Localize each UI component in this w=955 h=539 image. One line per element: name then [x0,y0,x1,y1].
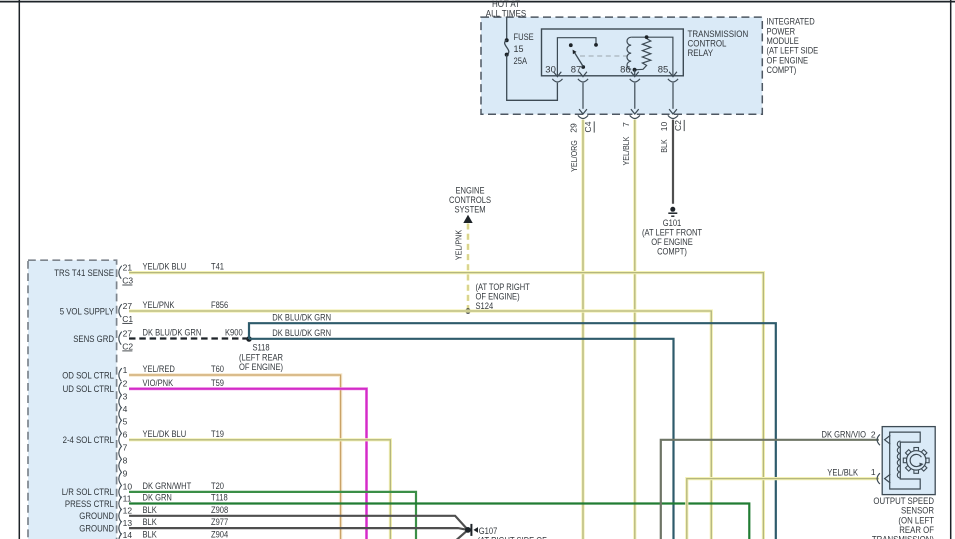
svg-text:10: 10 [123,482,133,492]
TCM pin 8 [119,456,128,472]
svg-text:T59: T59 [211,378,224,388]
svg-text:CONTROLS: CONTROLS [449,195,491,205]
svg-text:5: 5 [123,417,128,427]
svg-text:DK BLU/DK GRN: DK BLU/DK GRN [272,328,331,338]
wire YEL/ORG circuit 29 C4 from relay pin 87 [568,120,594,539]
relay pin 87 stub wire and connector [578,72,588,119]
wire YEL/BLK circuit 7 from relay pin 86 [621,120,635,539]
relay box (transmission control relay) [542,29,684,76]
svg-text:ENGINE: ENGINE [456,186,485,196]
svg-text:OF ENGINE): OF ENGINE) [239,362,283,372]
svg-text:INTEGRATED: INTEGRATED [767,17,816,27]
svg-text:TRS T41 SENSE: TRS T41 SENSE [54,268,114,278]
TCM pin 6 2-4 SOL CTRL [63,430,128,446]
output speed sensor box [882,427,935,495]
TCM pin 5 [119,417,128,433]
svg-text:3: 3 [123,391,128,401]
svg-text:DK BLU/DK GRN: DK BLU/DK GRN [143,328,202,338]
svg-text:SENS GRD: SENS GRD [73,334,114,344]
svg-text:YEL/PNK: YEL/PNK [143,300,175,310]
svg-text:SENSOR: SENSOR [901,506,934,516]
TCM pin 11 PRESS CTRL [65,493,132,509]
svg-text:(LEFT REAR: (LEFT REAR [239,352,283,362]
svg-text:10: 10 [659,122,669,132]
TCM pin 10 L/R SOL CTRL [62,482,133,498]
svg-text:9: 9 [123,469,128,479]
svg-text:G107: G107 [479,526,498,536]
relay coil 86/85 [627,35,673,75]
wire DK BLU/DK GRN upper branch [249,312,776,539]
svg-text:PRESS CTRL: PRESS CTRL [65,499,114,509]
TCM pin 1 OD SOL CTRL [62,365,127,381]
TCM pin 21 C3 TRS T41 SENSE [54,262,133,285]
svg-text:YEL/DK BLU: YEL/DK BLU [143,262,187,272]
integrated power module box [481,17,762,114]
wire VIO/PNK T59 [129,378,367,539]
svg-text:Z977: Z977 [211,517,228,527]
svg-text:YEL/BLK: YEL/BLK [827,468,858,478]
svg-text:12: 12 [123,506,133,516]
TCM pin 14 [119,530,132,539]
svg-text:7: 7 [621,122,631,127]
svg-text:COMPT): COMPT) [657,246,687,256]
splice S124 [465,282,530,314]
wire BLK Z977 [129,517,468,530]
svg-text:2-4 SOL CTRL: 2-4 SOL CTRL [63,435,114,445]
svg-text:(AT RIGHT SIDE OF: (AT RIGHT SIDE OF [478,536,548,539]
svg-text:5 VOL SUPPLY: 5 VOL SUPPLY [60,306,114,316]
svg-text:4: 4 [123,404,128,414]
fuse 15 25A [505,32,534,66]
svg-text:T60: T60 [211,364,224,374]
svg-text:OF ENGINE): OF ENGINE) [476,291,520,301]
TCM pin 12 GROUND [79,506,132,522]
svg-text:T41: T41 [211,262,224,272]
wire YEL/PNK F856 [129,300,711,539]
TCM pin 7 [119,443,128,459]
wire BLK circuit 10 C2 from relay pin 85 [659,120,684,204]
svg-text:T118: T118 [211,493,228,503]
wire YEL/DK BLU T41 [129,262,763,539]
svg-text:YEL/PNK: YEL/PNK [454,230,464,260]
svg-text:DK BLU/DK GRN: DK BLU/DK GRN [272,312,331,322]
svg-text:27: 27 [123,328,133,338]
svg-text:2: 2 [871,429,876,439]
wire DK GRN/VIO to sensor pin 2 [661,429,879,539]
svg-text:87: 87 [571,64,582,75]
svg-text:REAR OF: REAR OF [899,525,934,535]
TCM pin 4 [119,404,128,420]
label OUTPUT SPEED SENSOR [872,496,934,539]
wire YEL/RED T60 [129,364,341,539]
svg-text:GROUND: GROUND [79,511,114,521]
sensor pin 1 [871,467,890,484]
svg-text:OF ENGINE: OF ENGINE [651,237,693,247]
svg-text:YEL/BLK: YEL/BLK [621,136,631,165]
wire BLK Z908 [129,505,468,530]
TCM pin 9 [119,469,128,485]
svg-text:SYSTEM: SYSTEM [454,205,485,215]
wire DK GRN T118 [129,493,749,539]
svg-text:15: 15 [514,44,524,54]
svg-text:29: 29 [568,123,578,133]
wire BLK Z904 [143,529,468,539]
svg-text:T20: T20 [211,481,224,491]
svg-text:1: 1 [871,467,876,477]
svg-text:VIO/PNK: VIO/PNK [143,378,174,388]
svg-text:FUSE: FUSE [514,32,534,42]
svg-text:(AT LEFT FRONT: (AT LEFT FRONT [642,227,703,237]
svg-text:13: 13 [123,518,133,528]
TCM pin 27 C1 5 VOL SUPPLY [60,301,134,324]
svg-text:C2: C2 [122,341,133,351]
svg-text:C1: C1 [122,314,133,324]
TCM pin 13 GROUND [79,518,132,534]
svg-text:G101: G101 [663,218,682,228]
wire DK BLU/DK GRN lower branch [249,328,674,539]
transmission control module connector box [28,260,117,539]
wire YEL/DK BLU T19 [129,429,390,539]
TCM pin 3 [119,391,128,407]
svg-text:OF ENGINE: OF ENGINE [767,55,809,65]
svg-text:25A: 25A [514,56,528,66]
relay switch contacts 30/87 [557,38,629,76]
svg-text:6: 6 [123,430,128,440]
label INTEGRATED POWER MODULE [767,17,819,76]
svg-text:DK GRN/WHT: DK GRN/WHT [143,481,192,491]
svg-text:GROUND: GROUND [79,523,114,533]
svg-text:8: 8 [123,456,128,466]
wire DK GRN/WHT T20 [129,481,416,539]
sensor pin 2 [871,429,890,445]
ground G101 [642,207,703,256]
svg-text:27: 27 [123,301,133,311]
svg-text:YEL/ORG: YEL/ORG [569,140,579,172]
svg-text:OD SOL CTRL: OD SOL CTRL [62,370,114,380]
wire fuse to relay pin 30 [507,55,563,101]
svg-text:C4: C4 [583,121,593,132]
relay pin 86 stub wire and connector [630,72,640,119]
svg-text:7: 7 [123,443,128,453]
svg-text:OUTPUT SPEED: OUTPUT SPEED [873,496,934,506]
TCM pin 2 UD SOL CTRL [63,379,128,395]
svg-text:2: 2 [123,379,128,389]
svg-text:DK GRN/VIO: DK GRN/VIO [822,429,867,439]
svg-text:F856: F856 [211,300,228,310]
svg-text:MODULE: MODULE [767,36,799,46]
svg-text:Z904: Z904 [211,529,228,539]
wire YEL/PNK dashed to engine controls [454,224,469,312]
svg-text:C2: C2 [673,120,683,131]
svg-text:K900: K900 [225,328,243,338]
svg-text:85: 85 [658,64,669,75]
svg-text:BLK: BLK [143,517,157,527]
svg-text:30: 30 [545,64,556,75]
splice S118 [239,336,283,372]
ground G107 [465,524,547,539]
svg-text:UD SOL CTRL: UD SOL CTRL [63,384,114,394]
svg-text:(AT TOP RIGHT: (AT TOP RIGHT [476,282,531,292]
svg-text:(AT LEFT SIDE: (AT LEFT SIDE [767,46,819,56]
svg-text:POWER: POWER [767,26,796,36]
TCM pin 27 C2 SENS GRD [73,328,133,351]
svg-text:BLK: BLK [143,529,157,539]
svg-text:C3: C3 [122,275,133,285]
svg-text:TRANSMISSION): TRANSMISSION) [872,535,934,539]
node ENGINE CONTROLS SYSTEM [449,186,491,224]
svg-text:(ON LEFT: (ON LEFT [898,515,934,525]
relay pin 85 stub wire and connector [668,72,678,119]
wire from HOT AT ALL TIMES to fuse [506,18,508,41]
svg-text:BLK: BLK [143,505,157,515]
svg-text:RELAY: RELAY [688,48,714,59]
svg-text:21: 21 [123,262,133,272]
svg-text:YEL/DK BLU: YEL/DK BLU [143,429,187,439]
svg-text:ALL TIMES: ALL TIMES [486,9,526,20]
svg-text:S118: S118 [252,343,269,353]
svg-text:86: 86 [620,64,631,75]
svg-text:1: 1 [123,365,128,375]
output speed sensor icon [890,432,929,489]
svg-text:L/R SOL CTRL: L/R SOL CTRL [62,487,114,497]
svg-text:11: 11 [123,493,132,503]
svg-text:YEL/RED: YEL/RED [143,364,176,374]
svg-text:BLK: BLK [659,139,669,153]
node HOT AT ALL TIMES [486,0,526,20]
svg-text:14: 14 [123,530,133,539]
svg-text:COMPT): COMPT) [767,65,797,75]
svg-text:S124: S124 [476,301,494,311]
svg-text:DK GRN: DK GRN [143,493,172,503]
svg-text:T19: T19 [211,429,224,439]
svg-text:Z908: Z908 [211,505,228,515]
wire DK BLU/DK GRN K900 dashed [129,328,247,339]
wire YEL/BLK to sensor pin 1 [687,468,879,539]
label TRANSMISSION CONTROL RELAY [688,29,749,59]
